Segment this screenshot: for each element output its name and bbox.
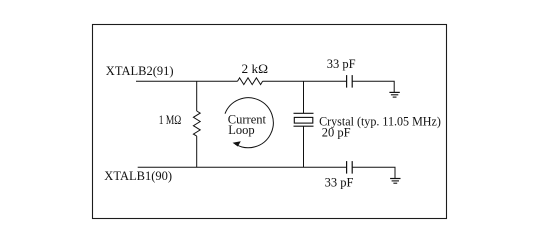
capacitor C top 33pF plates [346,75,348,88]
svg-text:XTALB1(90): XTALB1(90) [104,169,172,183]
current loop arc with arrowhead [225,98,273,148]
svg-text:1 MΩ: 1 MΩ [159,113,182,127]
svg-text:2 kΩ: 2 kΩ [242,62,269,76]
svg-text:33 pF: 33 pF [327,57,356,71]
wire: crystal branch vertical lower [303,126,305,167]
border frame [93,25,447,219]
svg-text:20 pF: 20 pF [322,125,351,139]
wire: left branch vertical upper [196,81,198,111]
crystal Y1 symbol [294,113,314,126]
svg-text:Loop: Loop [228,123,254,137]
wire: top rail mid segment to capacitor [263,80,346,82]
wire: crystal branch vertical upper [303,81,305,113]
svg-text:XTALB2(91): XTALB2(91) [106,64,174,78]
resistor R 1M zigzag vertical [193,111,200,136]
wire: bottom rail right segment to ground drop [352,167,395,178]
capacitor C bottom 33pF plates [346,161,348,174]
svg-text:33 pF: 33 pF [325,175,354,189]
wire: top rail right segment to ground drop [353,81,395,92]
wire: bottom rail left segment [138,166,346,168]
wire: left branch vertical lower [196,136,198,167]
ground top-right [389,92,399,97]
resistor R 2k zigzag [238,78,263,85]
ground bottom-right [390,179,400,184]
wire: top rail left segment [136,80,238,82]
